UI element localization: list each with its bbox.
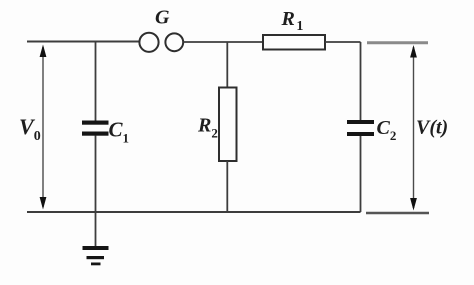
svg-text:V(t): V(t) [416, 117, 448, 139]
svg-text:G: G [155, 7, 170, 29]
